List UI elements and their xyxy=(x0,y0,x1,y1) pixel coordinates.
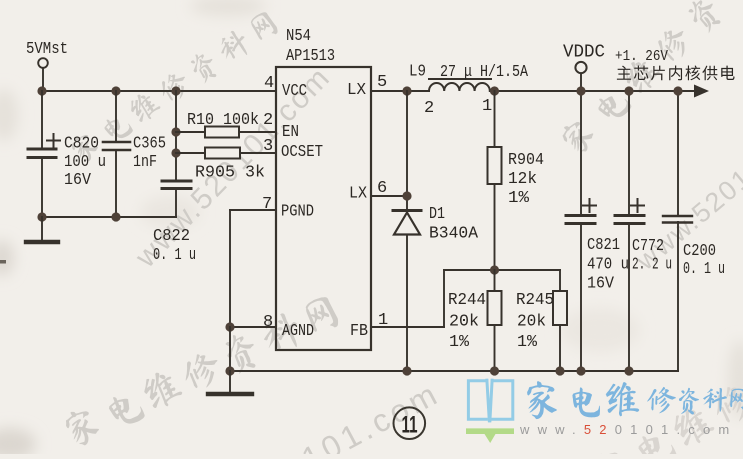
node junction xyxy=(171,148,180,157)
wire xyxy=(115,91,117,141)
wire xyxy=(175,190,177,217)
wire ground bus xyxy=(230,370,678,372)
resistor R905 xyxy=(176,148,276,183)
capacitor C821 xyxy=(566,91,629,371)
node junction xyxy=(555,366,564,375)
node junction xyxy=(171,127,180,136)
node junction xyxy=(624,86,633,95)
wire AGND xyxy=(230,326,276,328)
resistor R245 xyxy=(516,270,567,371)
ground xyxy=(26,217,58,242)
pin 5 xyxy=(377,73,387,92)
wire lower-left bus xyxy=(42,216,176,218)
node junction xyxy=(111,212,120,221)
capacitor C365 xyxy=(103,135,166,173)
wire LX pin5 xyxy=(371,90,429,92)
wire xyxy=(175,91,177,180)
wire LX pin6 xyxy=(371,195,407,197)
node junction xyxy=(490,86,499,95)
node junction xyxy=(111,86,120,95)
wire FB xyxy=(371,270,444,327)
node junction xyxy=(402,191,411,200)
capacitor C822 xyxy=(153,181,196,265)
node junction xyxy=(225,366,234,375)
figure number 11 xyxy=(394,407,426,439)
diode D1 B340A xyxy=(393,205,479,244)
label 主芯片内核供电 xyxy=(617,65,735,80)
node junction xyxy=(225,322,234,331)
node junction xyxy=(171,86,180,95)
pin 3 xyxy=(263,137,273,156)
arrow output xyxy=(694,85,709,98)
pin 6 xyxy=(377,179,387,198)
wire xyxy=(115,151,117,217)
terminal 5VMst xyxy=(26,40,68,68)
ground xyxy=(208,371,252,394)
node junction xyxy=(490,366,499,375)
node junction xyxy=(37,86,46,95)
pin 2 xyxy=(263,111,273,130)
resistor R904 xyxy=(488,91,545,270)
wire xyxy=(41,159,43,217)
wire xyxy=(41,91,43,148)
pin 4 xyxy=(264,74,274,93)
node junction xyxy=(402,366,411,375)
node junction xyxy=(576,366,585,375)
inductor L9 xyxy=(409,63,529,119)
node junction xyxy=(673,86,682,95)
op-amp U1 regulator N54 AP1513 xyxy=(276,27,371,350)
wire feedback node xyxy=(444,269,560,271)
node junction xyxy=(37,212,46,221)
label +1.26V xyxy=(615,48,668,65)
wire xyxy=(229,327,231,371)
node junction xyxy=(624,366,633,375)
terminal VDDC xyxy=(563,43,605,92)
wire xyxy=(406,91,408,209)
pin 7 xyxy=(262,195,272,214)
pin 8 xyxy=(263,313,273,332)
wire xyxy=(406,235,408,372)
capacitor C200 xyxy=(663,91,725,371)
wire PGND xyxy=(230,210,276,327)
capacitor C772 xyxy=(615,91,672,371)
wire top bus xyxy=(42,90,276,92)
node junction xyxy=(490,265,499,274)
resistor R10 xyxy=(176,111,276,138)
pin 1 xyxy=(378,311,388,330)
resistor R244 xyxy=(448,270,502,371)
node junction xyxy=(402,86,411,95)
svg-text:www.520101.com: www.520101.com xyxy=(519,422,737,437)
node junction xyxy=(576,86,585,95)
wire xyxy=(42,68,44,91)
wire output bus xyxy=(490,90,696,92)
capacitor C820 xyxy=(28,134,106,190)
